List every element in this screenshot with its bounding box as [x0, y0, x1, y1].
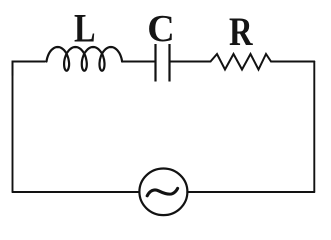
wire inductor to capacitor	[122, 61, 156, 63]
wire capacitor to resistor	[170, 61, 211, 63]
capacitor C right plate	[168, 44, 170, 82]
wire resistor to top-right corner	[271, 61, 314, 63]
wire bottom left segment	[13, 191, 140, 193]
wire right vertical	[313, 62, 315, 193]
inductor L coil	[47, 47, 123, 71]
AC source tilde	[147, 188, 177, 195]
wire top-left segment	[13, 62, 45, 76]
label R	[229, 12, 256, 50]
capacitor C left plate	[154, 44, 156, 82]
label C	[147, 10, 174, 48]
wire left vertical	[12, 62, 14, 193]
wire bottom right segment	[187, 191, 314, 193]
resistor R zigzag	[211, 54, 272, 70]
label L	[74, 9, 99, 47]
AC source circle	[139, 169, 187, 216]
